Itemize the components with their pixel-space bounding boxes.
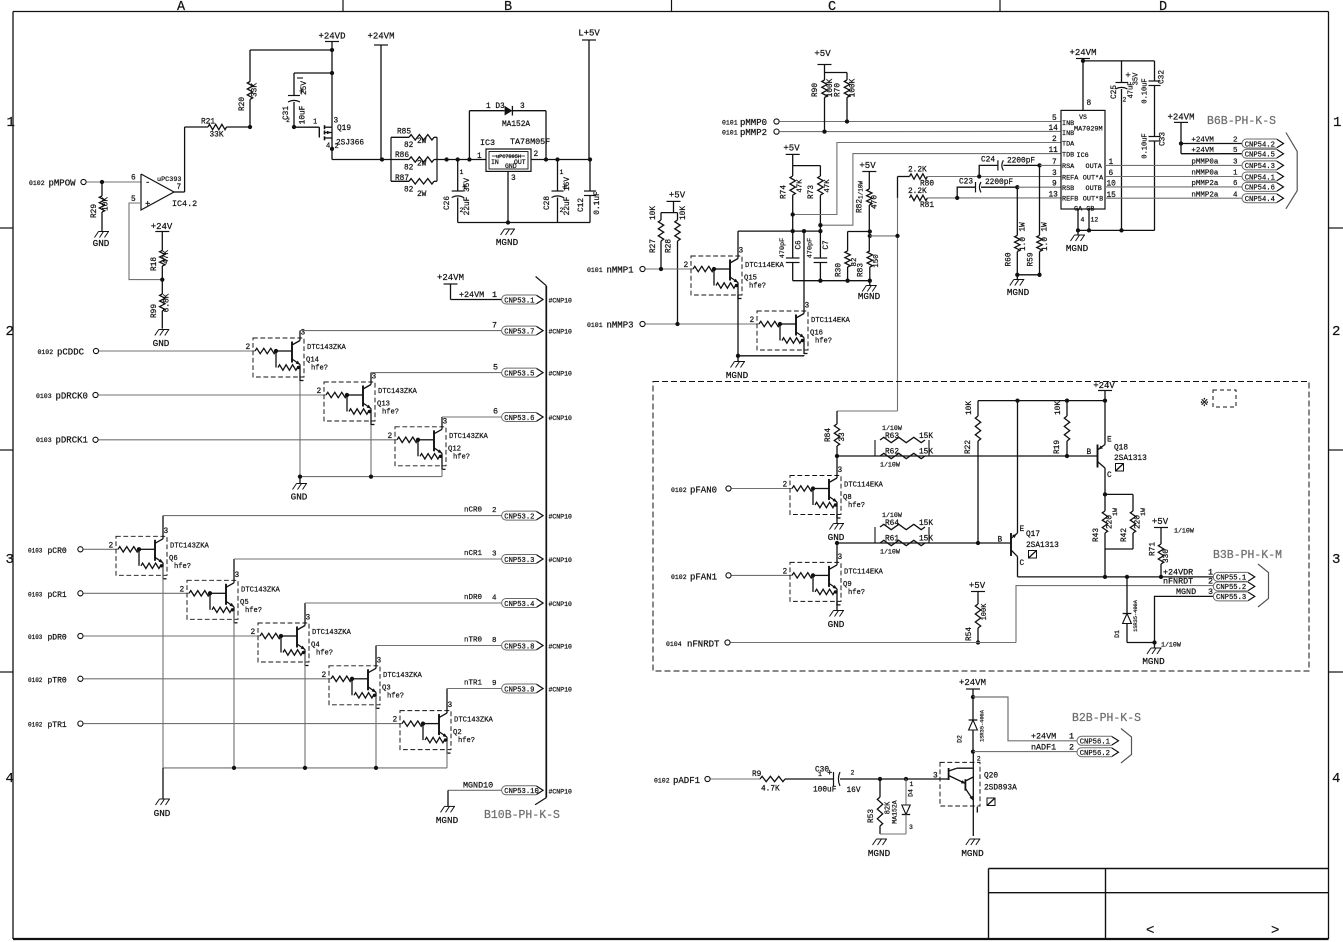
resistor R83 <box>858 251 882 281</box>
svg-text:CNP53.10: CNP53.10 <box>504 788 539 796</box>
svg-text:2: 2 <box>286 117 290 124</box>
svg-text:CNP53.9: CNP53.9 <box>504 686 534 694</box>
node pTR1 input <box>28 721 83 730</box>
svg-text:Q8: Q8 <box>843 494 852 502</box>
svg-text:pCR0: pCR0 <box>48 547 67 556</box>
diode D2 1SR35-400A <box>957 697 986 754</box>
regulator IC3 TA78M05F <box>477 137 550 183</box>
transistor Q14 DTC143ZKA <box>246 330 347 382</box>
wire Q6 emitter <box>162 567 164 768</box>
svg-text:1/10W: 1/10W <box>1161 642 1181 649</box>
svg-text:REFB: REFB <box>1062 196 1078 204</box>
wire R60 R59 bottoms <box>1015 273 1042 277</box>
wire regulator output <box>531 157 592 161</box>
label #CNP10 pin CNP53.6 <box>549 415 573 422</box>
wire pTR1 <box>83 723 402 725</box>
svg-text:pMMP0: pMMP0 <box>740 118 767 128</box>
svg-text:B3B-PH-K-M: B3B-PH-K-M <box>1213 549 1282 562</box>
node pFAN1 input <box>671 573 731 583</box>
capacitor C26 <box>444 160 472 223</box>
svg-text:2: 2 <box>783 568 788 576</box>
svg-text:C28: C28 <box>544 196 552 210</box>
svg-text:3: 3 <box>1332 552 1340 568</box>
connector tag CNP53.5 <box>502 368 543 378</box>
svg-text:Q18: Q18 <box>1114 445 1128 453</box>
svg-text:R54: R54 <box>966 627 974 641</box>
svg-text:6.8K: 6.8K <box>164 293 172 312</box>
svg-text:3: 3 <box>372 374 377 382</box>
wire +24VM to CNP56.1 <box>973 697 1077 741</box>
svg-text:10K: 10K <box>650 206 658 220</box>
label #CNP10 pin CNP53.5 <box>549 371 573 378</box>
resistor R29 <box>91 182 111 231</box>
svg-text:+24VM: +24VM <box>459 290 484 300</box>
svg-text:82: 82 <box>404 165 414 173</box>
svg-text:10K: 10K <box>966 401 974 415</box>
svg-text:R20: R20 <box>239 97 247 111</box>
svg-text:2SD893A: 2SD893A <box>984 785 1017 793</box>
svg-text:2: 2 <box>492 507 497 515</box>
svg-text:3: 3 <box>739 248 744 256</box>
resistor R30 <box>836 232 860 281</box>
svg-text:2: 2 <box>246 344 251 352</box>
svg-text:7: 7 <box>1052 159 1057 167</box>
wire Q4 collector nDR0 to tag <box>305 594 502 623</box>
svg-text:2: 2 <box>1233 137 1238 145</box>
svg-text:150: 150 <box>873 254 881 267</box>
svg-text:hfe?: hfe? <box>316 650 333 658</box>
svg-text:hfe?: hfe? <box>749 283 766 291</box>
svg-text:10K: 10K <box>680 206 688 220</box>
svg-text:4: 4 <box>6 771 14 787</box>
svg-text:2: 2 <box>750 317 755 325</box>
svg-text:0.10uF: 0.10uF <box>1142 133 1150 158</box>
resistor R71 330 <box>1150 542 1172 577</box>
svg-text:DTC143ZKA: DTC143ZKA <box>449 433 489 441</box>
node pMPOW input <box>29 179 86 189</box>
wire Q9 collector <box>836 543 838 562</box>
svg-text:DTC143ZKA: DTC143ZKA <box>170 542 210 550</box>
svg-text:DTC143ZKA: DTC143ZKA <box>378 388 418 396</box>
svg-text:2.2K: 2.2K <box>908 167 927 175</box>
svg-text:MGND: MGND <box>726 370 749 381</box>
svg-text:DTC114EKA: DTC114EKA <box>745 262 785 270</box>
capacitor C32 0.10uF <box>1142 61 1167 137</box>
svg-text:3: 3 <box>443 418 448 426</box>
svg-text:3: 3 <box>164 528 169 536</box>
svg-text:R53: R53 <box>868 809 876 823</box>
svg-text:2: 2 <box>109 542 114 550</box>
connector tag CNP53.1 <box>502 295 543 305</box>
svg-text:R90: R90 <box>812 83 820 97</box>
svg-text:3: 3 <box>1233 159 1238 167</box>
svg-text:+24VM: +24VM <box>1167 113 1194 123</box>
transistor Q6 DTC143ZKA <box>109 528 210 580</box>
svg-text:※: ※ <box>1200 398 1209 410</box>
svg-text:B6B-PH-K-S: B6B-PH-K-S <box>1207 115 1276 128</box>
svg-text:100K: 100K <box>981 603 989 621</box>
svg-text:CNP53.7: CNP53.7 <box>504 328 534 336</box>
svg-text:0102: 0102 <box>38 349 54 356</box>
svg-text:MA152A: MA152A <box>892 800 899 824</box>
svg-text:C: C <box>1020 560 1025 568</box>
svg-text:1: 1 <box>7 115 15 131</box>
svg-text:4.7K: 4.7K <box>761 786 780 794</box>
wire R30 R83 top link <box>848 229 872 233</box>
svg-text:R70: R70 <box>835 83 843 97</box>
svg-text:C33: C33 <box>1160 132 1168 146</box>
svg-text:OUT*B: OUT*B <box>1083 196 1103 204</box>
svg-text:2W: 2W <box>417 191 427 199</box>
wire Q18 base <box>1067 455 1098 457</box>
transistor Q12 DTC143ZKA <box>388 418 489 470</box>
svg-text:2: 2 <box>6 324 14 340</box>
svg-text:C: C <box>828 0 836 15</box>
svg-text:2: 2 <box>460 207 464 214</box>
svg-text:INB: INB <box>1062 120 1074 128</box>
svg-text:hfe?: hfe? <box>848 502 865 510</box>
wire pDRCK1 <box>98 439 397 441</box>
connector tag CNP55.3 <box>1213 592 1255 602</box>
transistor Q9 DTC114EKA <box>783 554 884 606</box>
wire Q15 collector <box>738 229 823 256</box>
svg-text:0101: 0101 <box>587 267 603 274</box>
resistor R42 220 1W <box>1121 494 1147 549</box>
resistor R9 4.7K <box>752 771 834 794</box>
svg-text:4: 4 <box>326 143 330 151</box>
node junction R21/R20 <box>248 125 252 129</box>
svg-text:1/10W: 1/10W <box>858 181 865 199</box>
svg-text:TA78M05F: TA78M05F <box>510 137 550 147</box>
svg-text:GA GB: GA GB <box>1074 206 1094 214</box>
svg-text:MA7029M: MA7029M <box>1074 126 1103 134</box>
node pCR1 input <box>28 591 83 600</box>
capacitor C12 <box>578 160 602 223</box>
connector tag CNP53.3 <box>502 555 543 565</box>
wire pMMP2 to INB pin14 <box>779 129 1061 133</box>
connector tag CNP54.4 <box>1191 191 1283 204</box>
svg-text:15: 15 <box>1107 192 1117 200</box>
svg-text:+24VM: +24VM <box>367 32 394 42</box>
svg-text:CNP53.1: CNP53.1 <box>504 297 534 305</box>
svg-text:DTC143ZKA: DTC143ZKA <box>312 629 352 637</box>
resistor R61 15K <box>880 536 933 556</box>
svg-text:R18: R18 <box>151 257 159 271</box>
node nMMP1 input <box>587 266 645 276</box>
ground MGND below Q20 <box>961 839 984 859</box>
svg-text:6: 6 <box>493 407 498 417</box>
wire Q13 collector to CNP53.5 <box>371 363 502 383</box>
capacitor C6 <box>779 215 804 281</box>
svg-text:47K: 47K <box>797 179 805 193</box>
wire TDA net <box>791 143 1061 217</box>
svg-text:OUTA: OUTA <box>1086 163 1103 171</box>
svg-text:1W: 1W <box>1112 508 1119 516</box>
svg-text:R71: R71 <box>1150 542 1158 556</box>
svg-text:R87: R87 <box>395 175 409 183</box>
wire fan row2 to Q17 base <box>835 541 1011 545</box>
transistor Q8 DTC114EKA <box>783 467 884 519</box>
svg-text:R27: R27 <box>650 239 658 253</box>
svg-text:0103: 0103 <box>28 547 43 554</box>
svg-text:hfe?: hfe? <box>311 365 328 373</box>
svg-text:hfe?: hfe? <box>174 563 191 571</box>
svg-text:D2: D2 <box>957 735 964 743</box>
svg-text:0103: 0103 <box>28 591 43 598</box>
node pMMP0 input <box>722 118 779 128</box>
power +24VD <box>318 32 345 128</box>
diode D3 MA152A <box>469 103 546 160</box>
svg-text:pDR0: pDR0 <box>48 634 67 643</box>
transistor Q4 DTC143ZKA <box>251 615 352 667</box>
svg-text:+24VM: +24VM <box>959 678 986 688</box>
svg-text:1W: 1W <box>1042 222 1050 232</box>
svg-text:1W: 1W <box>1140 508 1147 516</box>
svg-text:R82: R82 <box>857 199 865 213</box>
label B2B-PH-K-S <box>1072 712 1141 725</box>
svg-text:#CNP10: #CNP10 <box>549 415 573 422</box>
svg-text:100K: 100K <box>850 78 858 97</box>
svg-text:+24VM: +24VM <box>1069 48 1096 58</box>
wire nMMP3 <box>645 322 759 326</box>
svg-text:+: + <box>827 769 832 779</box>
svg-text:Q15: Q15 <box>744 275 757 283</box>
wire op-amp output riser <box>174 127 185 192</box>
ground MGND at CNP53.10 <box>436 806 459 826</box>
svg-text:4: 4 <box>1081 217 1085 224</box>
svg-text:15K: 15K <box>919 433 933 441</box>
connector bracket B2B <box>1121 729 1132 764</box>
svg-text:#CNP10: #CNP10 <box>549 557 573 564</box>
ground GND lower rail <box>154 768 171 819</box>
wire Q6 collector nCR0 to tag <box>163 507 502 537</box>
svg-text:C7: C7 <box>823 240 831 250</box>
svg-text:R60: R60 <box>1005 252 1013 266</box>
svg-text:2200pF: 2200pF <box>985 179 1013 187</box>
svg-text:0102: 0102 <box>654 778 670 785</box>
transistor Q2 DTC143ZKA <box>393 702 494 754</box>
resistor R59 1.0 1W <box>1028 165 1051 274</box>
label #CNP10 pin CNP53.2 <box>549 514 573 521</box>
svg-text:C12: C12 <box>578 198 586 212</box>
label #CNP10 pin CNP53.3 <box>549 557 573 564</box>
resistor R74 <box>781 166 805 215</box>
wire Q15 Q16 emitters to MGND <box>736 295 804 358</box>
title block arrows <box>1146 923 1279 939</box>
power +24V fan <box>1093 381 1115 401</box>
wire MGND10 to CNP53.10 <box>448 781 502 806</box>
svg-text:C6: C6 <box>796 240 804 250</box>
svg-text:DTC143ZKA: DTC143ZKA <box>454 717 494 725</box>
transistor Q3 DTC143ZKA <box>322 657 423 709</box>
connector tag CNP53.4 <box>502 599 543 609</box>
ground MGND regulator <box>496 229 519 248</box>
svg-text:1: 1 <box>818 771 822 778</box>
svg-text:hfe?: hfe? <box>453 453 470 461</box>
svg-text:Q3: Q3 <box>382 684 391 692</box>
svg-text:CNP53.4: CNP53.4 <box>504 601 534 609</box>
svg-text:0102: 0102 <box>28 677 43 684</box>
svg-text:R62: R62 <box>885 449 899 457</box>
svg-text:CNP54.4: CNP54.4 <box>1245 196 1275 204</box>
svg-text:pTR1: pTR1 <box>48 721 67 730</box>
svg-text:2: 2 <box>783 482 788 490</box>
svg-text:pDRCK1: pDRCK1 <box>56 436 88 446</box>
power +24VM at CNP53.1 <box>437 273 502 300</box>
svg-text:9: 9 <box>1052 181 1057 189</box>
svg-text:11: 11 <box>1049 147 1059 155</box>
capacitor C30 100uF <box>813 767 938 796</box>
svg-text:2: 2 <box>977 756 981 763</box>
label IC left pin numbers <box>1049 115 1059 199</box>
label #CNP10 pin CNP53.7 <box>549 329 573 336</box>
ground GND upper rail <box>291 477 308 503</box>
resistor R64 15K <box>875 512 933 543</box>
svg-text:#CNP10: #CNP10 <box>549 644 573 651</box>
node pFAN0 input <box>671 486 731 496</box>
svg-text:nMMP3: nMMP3 <box>607 321 634 331</box>
label #CNP10 pin CNP53.1 <box>549 298 573 305</box>
svg-text:E: E <box>1107 437 1112 445</box>
svg-text:#CNP10: #CNP10 <box>549 601 573 608</box>
svg-text:0102: 0102 <box>671 574 687 581</box>
svg-text:RSA: RSA <box>1062 163 1075 171</box>
power +5V above R54 <box>969 581 986 604</box>
svg-text:C26: C26 <box>444 196 452 210</box>
svg-text:0101: 0101 <box>722 120 738 127</box>
svg-text:R21: R21 <box>201 119 215 127</box>
note mark with dashed box <box>1200 390 1236 410</box>
svg-text:R59: R59 <box>1028 252 1036 266</box>
svg-text:RSB: RSB <box>1062 185 1074 193</box>
svg-text:22uF: 22uF <box>464 196 472 215</box>
svg-text:0103: 0103 <box>36 393 52 400</box>
wire pMMP0 to INB pin5 <box>779 119 1061 123</box>
svg-text:R43: R43 <box>1093 528 1101 542</box>
svg-text:2: 2 <box>684 262 689 270</box>
wire regulator bottom rail <box>458 222 590 224</box>
svg-text:7: 7 <box>492 321 497 331</box>
svg-text:Q16: Q16 <box>810 330 823 338</box>
svg-text:1: 1 <box>910 781 914 788</box>
svg-text:pDRCK0: pDRCK0 <box>56 392 88 402</box>
svg-text:R22: R22 <box>965 440 973 454</box>
svg-text:R83: R83 <box>858 263 866 277</box>
svg-text:R84: R84 <box>825 428 833 442</box>
svg-text:nMMP1: nMMP1 <box>607 266 634 276</box>
wire nADF1 row <box>973 752 1077 763</box>
power +5V above R71 <box>1152 517 1194 544</box>
power L+5V <box>578 29 600 160</box>
svg-text:nMMP2a: nMMP2a <box>1191 191 1219 199</box>
connector tag CNP53.8 <box>502 641 543 651</box>
svg-text:#CNP10: #CNP10 <box>549 298 573 305</box>
svg-text:3: 3 <box>520 103 525 111</box>
resistor R85 <box>391 129 437 151</box>
wire OUT*B nMMP2a <box>1105 197 1242 199</box>
svg-text:nCR1: nCR1 <box>464 550 483 558</box>
svg-text:3: 3 <box>909 824 913 831</box>
svg-text:OUTB: OUTB <box>1086 185 1102 193</box>
connector tag CNP53.6 <box>502 413 543 423</box>
wire R43 R42 pair bars <box>1103 492 1133 579</box>
resistor R22 10K <box>965 401 981 546</box>
svg-text:CNP54.5: CNP54.5 <box>1245 152 1275 160</box>
svg-text:2: 2 <box>322 672 327 680</box>
svg-text:R64: R64 <box>885 520 899 528</box>
svg-text:C25: C25 <box>1111 85 1119 99</box>
svg-text:-: - <box>145 178 150 188</box>
svg-text:2W: 2W <box>417 161 427 169</box>
svg-text:MGND: MGND <box>436 815 459 826</box>
svg-text:GND: GND <box>828 619 845 630</box>
svg-text:CNP55.2: CNP55.2 <box>1216 584 1246 592</box>
svg-text:D: D <box>1159 0 1167 15</box>
resistor R84 33 <box>825 411 898 458</box>
wire pCR0 <box>83 548 118 550</box>
svg-text:hfe?: hfe? <box>387 692 404 700</box>
label #CNP10 pin CNP53.4 <box>549 601 573 608</box>
wire pFAN1 <box>731 574 792 576</box>
svg-text:8: 8 <box>1087 100 1092 108</box>
power +24VM <box>367 32 394 160</box>
wire IC ground pins 4 12 <box>1078 209 1098 230</box>
wire +24VDR row <box>1018 567 1243 579</box>
svg-text:CNP53.8: CNP53.8 <box>504 643 534 651</box>
svg-text:1/10W: 1/10W <box>1174 528 1194 535</box>
connector tag CNP54.2 <box>1191 137 1283 150</box>
svg-text:GND: GND <box>93 238 110 249</box>
svg-text:3: 3 <box>306 615 311 623</box>
diode D4 MA152A <box>880 779 915 834</box>
svg-text:2200pF: 2200pF <box>1007 158 1035 166</box>
svg-text:#CNP10: #CNP10 <box>549 687 573 694</box>
svg-text:#CNP10: #CNP10 <box>549 514 573 521</box>
svg-text:A: A <box>177 0 186 15</box>
svg-text:12: 12 <box>1091 217 1099 224</box>
wire vertical feed to fan box <box>895 198 899 411</box>
svg-text:CNP53.6: CNP53.6 <box>504 415 534 423</box>
node pCDDC input <box>38 348 99 358</box>
svg-text:#CNP10: #CNP10 <box>549 371 573 378</box>
power +24VM at B6B <box>1167 113 1194 154</box>
svg-text:25V: 25V <box>301 81 309 95</box>
connector bracket B3B <box>1258 564 1269 607</box>
svg-text:R9: R9 <box>752 771 762 779</box>
svg-text:DTC143ZKA: DTC143ZKA <box>383 672 423 680</box>
svg-text:100uF: 100uF <box>813 787 837 795</box>
svg-text:2: 2 <box>1208 576 1213 586</box>
svg-text:2: 2 <box>534 151 539 159</box>
svg-text:2SA1313: 2SA1313 <box>1026 542 1059 550</box>
svg-text:DTC143ZKA: DTC143ZKA <box>307 344 347 352</box>
svg-text:2: 2 <box>388 433 393 441</box>
svg-text:1: 1 <box>313 119 317 127</box>
resistor R73 <box>808 176 832 225</box>
svg-text:Q13: Q13 <box>377 401 390 409</box>
svg-text:pMPOW: pMPOW <box>49 179 77 189</box>
svg-text:3: 3 <box>838 467 843 475</box>
label #CNP10 pin CNP53.8 <box>549 644 573 651</box>
wire Q5 collector nCR1 to tag <box>234 550 502 580</box>
svg-text:1SR35-400A: 1SR35-400A <box>1133 599 1139 632</box>
wire +24VM top rail to C25 C32 <box>1083 60 1155 62</box>
wire pCDDC <box>99 350 255 352</box>
transistor Q18 2SA1313 <box>1087 401 1148 495</box>
power +5V above R27 R28 <box>661 191 686 213</box>
svg-text:IN: IN <box>491 159 499 166</box>
diode D1 1SR35-400A <box>1114 577 1157 645</box>
